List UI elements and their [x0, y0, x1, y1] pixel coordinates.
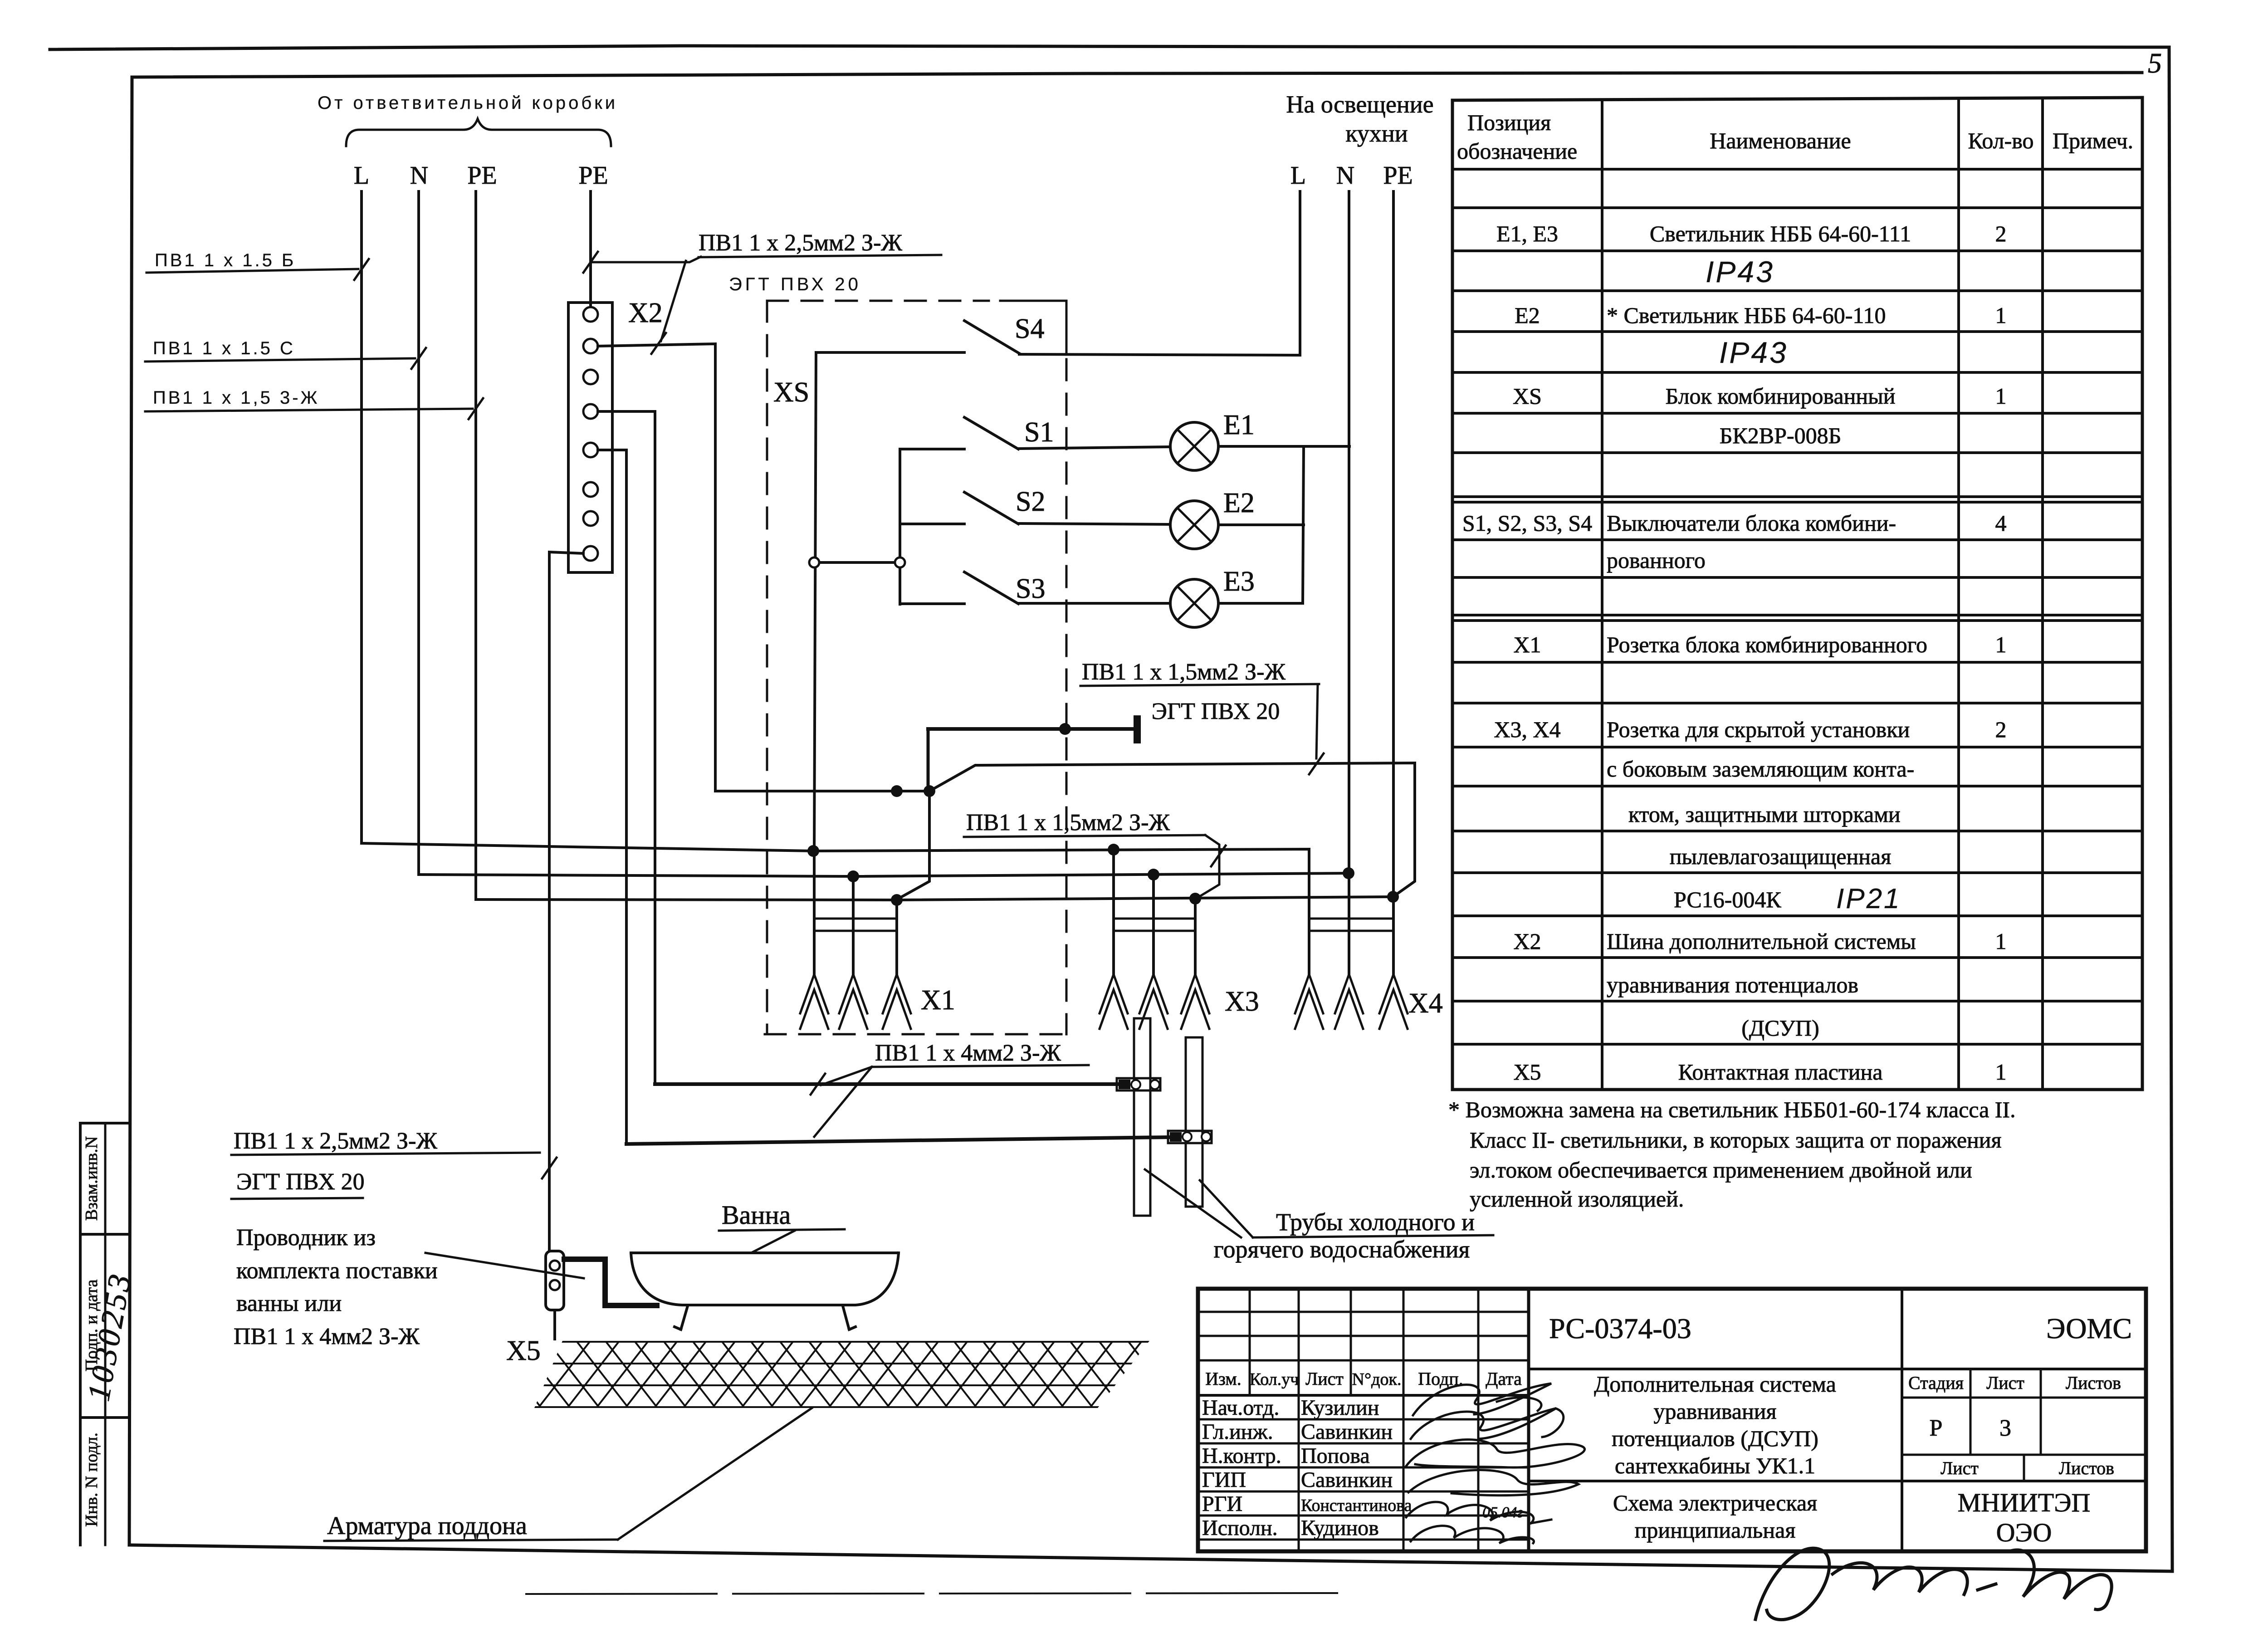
- hot water pipe: [1186, 1037, 1202, 1207]
- svg-text:ванны или: ванны или: [236, 1291, 342, 1316]
- PE wire jog to socket X4 PE: [929, 763, 1415, 897]
- svg-text:Светильник НББ 64-60-111: Светильник НББ 64-60-111: [1650, 221, 1911, 246]
- lamp E2 cross 1: [1178, 508, 1212, 542]
- title block horizontal under РС-0374-03: [1529, 1368, 2146, 1370]
- signature Кудинов: [1411, 1526, 1534, 1543]
- underline of bottom ПВ1 2,5 label: [231, 1153, 540, 1155]
- svg-text:От ответвительной коробки: От ответвительной коробки: [318, 93, 618, 113]
- svg-text:Контактная пластина: Контактная пластина: [1678, 1059, 1883, 1085]
- earth-bar wire (ПВ1 1х1,5 З-Ж): [928, 727, 1135, 731]
- X1 pin chevron inner: [839, 990, 867, 1029]
- svg-text:Х4: Х4: [1408, 988, 1443, 1019]
- svg-text:1: 1: [1995, 303, 2007, 328]
- X1 pin chevron outer: [839, 974, 867, 1013]
- clamp on pipe 1: [1117, 1078, 1160, 1090]
- X1 pin chevron inner: [883, 990, 911, 1029]
- leader down from label to PE wire: [1316, 684, 1318, 758]
- switch S3 left wire: [900, 602, 964, 605]
- lamp E1 cross 2: [1178, 430, 1212, 464]
- X2 terminal circle y=1220: [583, 546, 598, 561]
- title block separator right: [1901, 1289, 1903, 1551]
- signature Савинкин 2: [1408, 1470, 1579, 1496]
- X4 pin x=2886: [1308, 849, 1310, 974]
- switch S4 blade: [964, 321, 1019, 353]
- svg-text:Листов: Листов: [2059, 1458, 2114, 1478]
- svg-text:ОЭО: ОЭО: [1996, 1518, 2052, 1547]
- tb col line 2: [1298, 1289, 1300, 1551]
- svg-text:N°док.: N°док.: [1352, 1370, 1402, 1389]
- svg-text:N: N: [1336, 161, 1354, 190]
- leader from label to X2 outgoing wire: [661, 261, 686, 341]
- lamp E2 circle: [1170, 501, 1218, 549]
- lamp E1 cross 1: [1178, 430, 1212, 464]
- svg-text:* Возможна замена на светильни: * Возможна замена на светильник НББ01-60…: [1448, 1097, 2016, 1122]
- wire PE node riser to earth-bar wire: [927, 729, 930, 791]
- svg-text:ЭГТ ПВХ 20: ЭГТ ПВХ 20: [1152, 699, 1280, 724]
- bus N to sockets: [419, 873, 1349, 876]
- svg-text:горячего водоснабжения: горячего водоснабжения: [1214, 1236, 1470, 1263]
- svg-text:ПВ1 1 х 2,5мм2 З-Ж: ПВ1 1 х 2,5мм2 З-Ж: [699, 230, 902, 256]
- X3 pin chevron outer: [1100, 974, 1128, 1013]
- svg-text:PE: PE: [1383, 161, 1413, 190]
- svg-text:1: 1: [1995, 383, 2007, 409]
- switch S1 blade: [964, 417, 1018, 449]
- title block stadia row line: [1902, 1454, 2146, 1456]
- title block horizontal above Схема: [1529, 1480, 2146, 1482]
- svg-text:Х5: Х5: [506, 1335, 541, 1366]
- left margin stamp boxes: [79, 1123, 82, 1545]
- svg-text:4: 4: [1995, 510, 2007, 536]
- wire X2:8 down to contact plate X5: [549, 552, 583, 1251]
- svg-text:Ванна: Ванна: [722, 1200, 791, 1230]
- N riser for lamps: [1303, 446, 1304, 603]
- kitchen L wire up from S4: [1299, 191, 1301, 355]
- tb col line 1 (upper): [1249, 1289, 1251, 1395]
- svg-text:Х5: Х5: [1513, 1059, 1541, 1085]
- stray bottom dash line: [526, 1593, 1338, 1594]
- bus L to sockets, ends as X4 L pin: [362, 843, 1309, 931]
- parts list table: [1452, 98, 2142, 100]
- leader to W1: [821, 1067, 872, 1085]
- svg-text:Схема электрическая: Схема электрическая: [1613, 1490, 1817, 1516]
- X3 pin chevron inner: [1181, 990, 1209, 1029]
- svg-text:уравнивания потенциалов: уравнивания потенциалов: [1607, 972, 1858, 997]
- floor grid Арматура поддона: [481, 1342, 1208, 1407]
- wire X2:2 to PE node (down and right): [598, 344, 929, 791]
- svg-text:Гл.инж.: Гл.инж.: [1202, 1420, 1273, 1444]
- svg-text:сантехкабины УК1.1: сантехкабины УК1.1: [1615, 1453, 1815, 1478]
- switch S3 output wire to lamp E3: [1018, 602, 1170, 605]
- X2 terminal circle y=907: [583, 404, 598, 419]
- wire N vertical from branch box: [417, 191, 420, 875]
- X1 pin chevron inner: [800, 990, 828, 1029]
- X3 pin chevron inner: [1139, 990, 1168, 1029]
- svg-text:ЭГТ ПВХ 20: ЭГТ ПВХ 20: [729, 274, 861, 294]
- svg-text:N: N: [410, 161, 428, 190]
- svg-text:Кол-во: Кол-во: [1968, 128, 2033, 153]
- lamp E2 output wire to N riser: [1218, 523, 1304, 526]
- underline of Арматура поддона: [324, 1540, 618, 1541]
- svg-text:S1: S1: [1024, 417, 1054, 448]
- leader to W2: [814, 1067, 872, 1137]
- svg-text:IP43: IP43: [1719, 336, 1788, 369]
- XS block boundary bottom (dashed): [765, 1033, 1066, 1036]
- bath tub Ванна: [631, 1252, 899, 1254]
- kitchen N wire down to socket X4: [1348, 191, 1350, 931]
- leader from label to PE#2 wire: [591, 257, 701, 262]
- leader from Ванна to tub: [753, 1231, 795, 1252]
- junction dot X4 PE: [1387, 891, 1399, 903]
- svg-text:Примеч.: Примеч.: [2053, 128, 2133, 153]
- switch S2 blade: [964, 492, 1018, 524]
- svg-text:S4: S4: [1015, 313, 1044, 344]
- switch S4 left wire: [816, 351, 964, 354]
- svg-text:На освещение: На освещение: [1286, 91, 1433, 118]
- svg-text:Проводник из: Проводник из: [236, 1225, 376, 1251]
- X2 terminal circle y=831: [583, 370, 598, 384]
- X2 terminal circle y=763: [583, 339, 598, 353]
- svg-text:Х1: Х1: [1513, 632, 1541, 657]
- svg-text:потенциалов (ДСУП): потенциалов (ДСУП): [1612, 1426, 1818, 1451]
- title block: [1198, 1289, 2146, 1551]
- X2 terminal circle y=1079: [583, 482, 598, 497]
- svg-text:Выключатели блока комбини-: Выключатели блока комбини-: [1607, 510, 1896, 536]
- X4 pin chevron inner: [1379, 990, 1408, 1029]
- switch S1 output wire to lamp E1: [1018, 447, 1170, 449]
- lamp E3 cross 1: [1178, 587, 1212, 621]
- svg-text:Нач.отд.: Нач.отд.: [1202, 1396, 1279, 1420]
- svg-text:L: L: [354, 161, 369, 190]
- title block separator left: [1527, 1289, 1530, 1551]
- X3 pin x=2543: [1152, 875, 1155, 974]
- svg-text:Трубы холодного и: Трубы холодного и: [1276, 1208, 1475, 1236]
- svg-text:1: 1: [1995, 632, 2007, 657]
- svg-text:Класс II- светильники, в котор: Класс II- светильники, в которых защита …: [1470, 1127, 2002, 1153]
- svg-text:Р: Р: [1930, 1415, 1943, 1441]
- svg-text:Константинова: Константинова: [1301, 1496, 1412, 1515]
- svg-text:БК2ВР-008Б: БК2ВР-008Б: [1720, 423, 1842, 448]
- svg-text:Розетка для скрытой установки: Розетка для скрытой установки: [1607, 717, 1910, 742]
- svg-text:Х3: Х3: [1225, 986, 1259, 1017]
- cable tick on wire L: [354, 259, 369, 280]
- underline of pipes label: [1253, 1235, 1493, 1237]
- X2 terminal circle y=693: [583, 307, 598, 322]
- bonding wire W1 to pipe 1 clamp: [655, 1082, 1117, 1086]
- svg-text:Е2: Е2: [1515, 303, 1540, 328]
- svg-text:ЭГТ ПВХ 20: ЭГТ ПВХ 20: [236, 1169, 365, 1195]
- S riser inside XS (feeds S1-S3): [899, 449, 901, 604]
- X1 pin x=1977: [895, 900, 898, 974]
- X1 pin chevron outer: [800, 974, 828, 1013]
- terminal bus X2 (ДСУП bus): [568, 303, 612, 572]
- svg-text:Позиция: Позиция: [1467, 110, 1551, 135]
- X1 pin chevron outer: [883, 974, 911, 1013]
- svg-text:S2: S2: [1016, 486, 1045, 517]
- svg-text:S3: S3: [1016, 573, 1045, 604]
- bonding wire W2 to pipe 2 clamp: [626, 1137, 1168, 1144]
- switch S2 left wire: [900, 523, 964, 525]
- svg-text:РГИ: РГИ: [1202, 1492, 1242, 1516]
- svg-text:Н.контр.: Н.контр.: [1202, 1444, 1281, 1468]
- leader to pipe 1: [1145, 1169, 1241, 1237]
- cable tick on wire N: [411, 348, 426, 369]
- lamp E1 output wire to N: [1218, 445, 1349, 448]
- drawing frame bottom line: [129, 1545, 2172, 1571]
- underline of Ванна: [719, 1229, 845, 1231]
- svg-text:Дополнительная система: Дополнительная система: [1594, 1371, 1836, 1397]
- X3 pin x=2635: [1194, 899, 1197, 974]
- svg-text:PE: PE: [578, 161, 608, 190]
- svg-text:XS: XS: [773, 377, 809, 408]
- leader from Проводник text to bath wire: [425, 1253, 584, 1278]
- svg-text:ПВ1 1 х 1,5мм2 З-Ж: ПВ1 1 х 1,5мм2 З-Ж: [966, 810, 1170, 836]
- leader for ПВ1 1х1.5 Б to wire L: [147, 269, 358, 273]
- junction dot X3 PE: [1189, 893, 1201, 904]
- junction dot PE node: [924, 785, 935, 797]
- X1 pin x=1881: [852, 876, 855, 974]
- drawing frame top line: [132, 73, 2142, 77]
- svg-text:МНИИТЭП: МНИИТЭП: [1958, 1488, 2091, 1517]
- svg-text:Арматура поддона: Арматура поддона: [327, 1512, 527, 1540]
- svg-text:Инв. N подл.: Инв. N подл.: [82, 1432, 101, 1527]
- title block stadia header underline: [1902, 1397, 2146, 1399]
- svg-text:принципиальная: принципиальная: [1635, 1517, 1796, 1543]
- leader for ПВ1 1х1,5 3-Ж to wire PE: [145, 409, 473, 411]
- svg-text:Лист: Лист: [1941, 1458, 1979, 1478]
- svg-text:1: 1: [1995, 929, 2007, 954]
- svg-text:Е2: Е2: [1223, 488, 1255, 518]
- signature Константинова: [1406, 1502, 1551, 1523]
- svg-text:3: 3: [1999, 1415, 2011, 1441]
- cable tick on bus L crossing: [1211, 846, 1226, 866]
- kitchen PE wire down to socket X4: [1392, 191, 1395, 931]
- svg-text:ПВ1 1 х 4мм2 З-Ж: ПВ1 1 х 4мм2 З-Ж: [875, 1040, 1061, 1066]
- title block стадия/лист separator: [1970, 1369, 1972, 1455]
- leader jog from lower label to X3 PE node: [1198, 835, 1219, 898]
- svg-text:ПВ1 1 х 1.5 Б: ПВ1 1 х 1.5 Б: [155, 250, 296, 270]
- cold water pipe: [1134, 1018, 1150, 1216]
- underline of center ПВ1 4мм2 label: [872, 1065, 1089, 1067]
- svg-text:Исполн.: Исполн.: [1202, 1516, 1278, 1540]
- wire L vertical from branch box: [360, 191, 363, 843]
- cable tick on X2 outgoing wire: [651, 333, 666, 354]
- svg-text:ГИП: ГИП: [1202, 1468, 1246, 1492]
- svg-text:ЭОМС: ЭОМС: [2046, 1312, 2132, 1344]
- cable tick on PE#2 wire: [583, 252, 598, 273]
- svg-text:усиленной изоляцией.: усиленной изоляцией.: [1470, 1186, 1684, 1212]
- svg-text:рованного: рованного: [1607, 548, 1706, 573]
- junction dot X1 N: [847, 870, 859, 882]
- X4 pin chevron outer: [1379, 974, 1408, 1013]
- svg-text:кухни: кухни: [1345, 120, 1408, 147]
- svg-text:* Светильник НББ 64-60-110: * Светильник НББ 64-60-110: [1607, 303, 1886, 328]
- title block лист/листов separator: [2040, 1369, 2042, 1455]
- XS block boundary top (dashed): [767, 300, 989, 302]
- X1 pin x=1795: [813, 851, 816, 974]
- svg-text:Взам.инв.N: Взам.инв.N: [82, 1136, 101, 1221]
- svg-text:Лист: Лист: [1986, 1373, 2024, 1393]
- cable tick on PE wire: [1309, 753, 1324, 774]
- svg-text:(ДСУП): (ДСУП): [1741, 1015, 1819, 1041]
- bath leg right: [843, 1306, 855, 1330]
- X5 plate stub to floor grid: [553, 1310, 556, 1339]
- tb col line 5: [1477, 1289, 1480, 1551]
- XS boundary top right corner (solid): [1000, 301, 1066, 353]
- X4 pin chevron inner: [1335, 990, 1363, 1029]
- open contact circle right: [895, 557, 905, 567]
- svg-text:Блок комбинированный: Блок комбинированный: [1666, 383, 1896, 409]
- leader for ПВ1 1х1.5 С to wire N: [145, 358, 415, 362]
- X4 pin x=2974: [1348, 873, 1350, 974]
- socket X4: [1309, 918, 1393, 920]
- svg-text:L: L: [1290, 161, 1306, 190]
- wire X2:5 down to pipe bond W2: [598, 450, 626, 1144]
- link wire between risers (plug contacts): [814, 561, 900, 564]
- svg-text:пылевлагозащищенная: пылевлагозащищенная: [1670, 844, 1891, 869]
- switch S1 left wire: [900, 448, 964, 450]
- svg-text:PE: PE: [467, 161, 497, 190]
- lamp E3 circle: [1170, 579, 1218, 627]
- svg-text:1: 1: [1995, 1059, 2007, 1085]
- switch S4 output wire to kitchen L: [1019, 354, 1300, 355]
- svg-text:комплекта поставки: комплекта поставки: [236, 1258, 438, 1284]
- XS block boundary right (dashed): [1066, 359, 1068, 1034]
- svg-text:ПВ1 1 х 1,5мм2 З-Ж: ПВ1 1 х 1,5мм2 З-Ж: [1082, 659, 1286, 685]
- svg-text:ПВ1 1 х 4мм2 З-Ж: ПВ1 1 х 4мм2 З-Ж: [234, 1324, 420, 1349]
- earth bar terminal: [1134, 715, 1141, 743]
- svg-text:Попова: Попова: [1301, 1444, 1370, 1468]
- signature Кузилин: [1413, 1384, 1551, 1415]
- svg-text:Дата: Дата: [1486, 1369, 1522, 1389]
- bus PE to sockets: [476, 897, 1393, 900]
- sheet right border: [2169, 47, 2172, 1571]
- underline of upper ПВ1 1х1,5 label: [1080, 684, 1319, 686]
- cable tick on X5 wire: [542, 1158, 557, 1178]
- X2 terminal circle y=992: [583, 443, 598, 457]
- leader to pipe 2: [1200, 1180, 1253, 1237]
- clamp on pipe 2: [1168, 1131, 1212, 1143]
- svg-text:Х2: Х2: [1513, 929, 1541, 954]
- svg-text:Х2: Х2: [628, 298, 663, 328]
- brace over L N PE PE: [346, 119, 611, 146]
- svg-text:Стадия: Стадия: [1908, 1373, 1964, 1393]
- svg-text:Х1: Х1: [921, 985, 955, 1016]
- svg-text:Наименование: Наименование: [1710, 128, 1851, 153]
- svg-text:Савинкин: Савинкин: [1301, 1420, 1393, 1444]
- svg-text:IP43: IP43: [1706, 255, 1774, 288]
- svg-text:S1, S2, S3, S4: S1, S2, S3, S4: [1462, 510, 1592, 536]
- XS block boundary left (dashed): [766, 301, 768, 1034]
- signature Савинкин 1: [1411, 1408, 1564, 1439]
- signature Попова: [1406, 1440, 1585, 1468]
- svg-text:с боковым заземляющим конта-: с боковым заземляющим конта-: [1607, 756, 1914, 782]
- svg-text:ктом, защитными шторками: ктом, защитными шторками: [1628, 802, 1901, 827]
- X4 pin chevron outer: [1295, 974, 1323, 1013]
- underline of lower ПВ1 1х1,5 label: [964, 835, 1205, 837]
- wire PE vertical from branch box: [474, 191, 477, 900]
- X3 pin chevron outer: [1139, 974, 1168, 1013]
- junction dot X1 PE: [891, 894, 903, 906]
- svg-text:обозначение: обозначение: [1457, 138, 1577, 164]
- tb col line 4: [1403, 1289, 1405, 1551]
- svg-text:XS: XS: [1513, 383, 1542, 409]
- svg-text:Лист: Лист: [1305, 1369, 1344, 1389]
- svg-text:Е1, Е3: Е1, Е3: [1496, 221, 1558, 246]
- cable tick on W1: [811, 1074, 825, 1095]
- svg-text:Кудинов: Кудинов: [1301, 1516, 1379, 1540]
- junction dot X1 L: [807, 845, 819, 857]
- lamp E1 circle: [1170, 422, 1218, 470]
- wire PE#2 vertical into X2: [589, 191, 592, 307]
- wire X2:4 down to pipe bond W1: [598, 411, 655, 1084]
- bath bonding conductor (heavy): [564, 1259, 657, 1305]
- svg-text:РС-0374-03: РС-0374-03: [1549, 1312, 1691, 1344]
- PE branch down to X1 PE jog: [897, 791, 929, 900]
- svg-text:Розетка блока комбинированного: Розетка блока комбинированного: [1607, 632, 1927, 657]
- handwritten mark bottom right Жарт.НН16: [1755, 1548, 2112, 1619]
- svg-text:уравнивания: уравнивания: [1654, 1398, 1777, 1424]
- tb col line 3 (upper): [1350, 1289, 1352, 1395]
- lamp E3 cross 2: [1178, 587, 1212, 621]
- junction dot on earth-bar wire: [1059, 723, 1071, 735]
- leader from Арматура поддона to grid: [618, 1408, 812, 1540]
- svg-text:Кузилин: Кузилин: [1301, 1396, 1379, 1420]
- X4 pin chevron inner: [1295, 990, 1323, 1029]
- svg-text:Листов: Листов: [2066, 1373, 2121, 1393]
- junction dot X3 N: [1148, 869, 1159, 880]
- X2 terminal circle y=1143: [583, 511, 598, 526]
- junction dot X3 L: [1108, 844, 1119, 856]
- svg-text:ПВ1 1 х 2,5мм2 З-Ж: ПВ1 1 х 2,5мм2 З-Ж: [234, 1128, 437, 1154]
- svg-text:эл.током обеспечивается примен: эл.током обеспечивается применением двой…: [1470, 1157, 1972, 1183]
- X4 pin chevron outer: [1335, 974, 1363, 1013]
- X3 pin chevron outer: [1181, 974, 1209, 1013]
- switch S2 output wire to lamp E2: [1018, 523, 1170, 524]
- svg-text:2: 2: [1995, 221, 2007, 246]
- svg-text:Кол.уч: Кол.уч: [1250, 1370, 1299, 1389]
- socket X3: [1114, 918, 1195, 920]
- svg-text:Изм.: Изм.: [1205, 1369, 1241, 1389]
- svg-text:РС16-004К: РС16-004К: [1674, 887, 1781, 912]
- switch S3 blade: [964, 572, 1018, 604]
- svg-text:Е3: Е3: [1223, 566, 1255, 597]
- svg-text:Шина дополнительной системы: Шина дополнительной системы: [1607, 929, 1916, 954]
- underline of ПВ1 1х2,5мм2 З-Ж (top): [699, 255, 941, 257]
- cable tick on wire PE: [469, 398, 483, 419]
- socket X1: [814, 918, 897, 920]
- sheet outer top line: [50, 46, 2166, 49]
- X3 pin x=2455: [1112, 850, 1115, 974]
- junction dot X4 N: [1343, 867, 1354, 879]
- svg-text:ПВ1 1 х 1,5 3-Ж: ПВ1 1 х 1,5 3-Ж: [153, 388, 319, 408]
- lamp E3 output wire to N riser: [1218, 602, 1303, 605]
- svg-text:Савинкин: Савинкин: [1301, 1468, 1393, 1492]
- svg-text:2: 2: [1995, 717, 2007, 742]
- svg-text:5: 5: [2148, 48, 2162, 79]
- X4 pin x=3072: [1392, 897, 1395, 974]
- X3 pin chevron inner: [1100, 990, 1128, 1029]
- svg-text:IP21: IP21: [1836, 883, 1901, 914]
- lamp E2 cross 2: [1178, 508, 1212, 542]
- junction dot X1 PE riser on PE wire: [891, 785, 903, 797]
- contact plate X5: [546, 1251, 564, 1310]
- svg-text:Е1: Е1: [1223, 410, 1255, 440]
- svg-text:Х3, Х4: Х3, Х4: [1494, 717, 1560, 742]
- drawing frame left line: [129, 77, 132, 1545]
- svg-text:ПВ1 1 х 1.5 С: ПВ1 1 х 1.5 С: [153, 338, 295, 358]
- underline of bottom ЭГТ ПВХ 20: [231, 1198, 363, 1199]
- bath leg left: [675, 1306, 688, 1330]
